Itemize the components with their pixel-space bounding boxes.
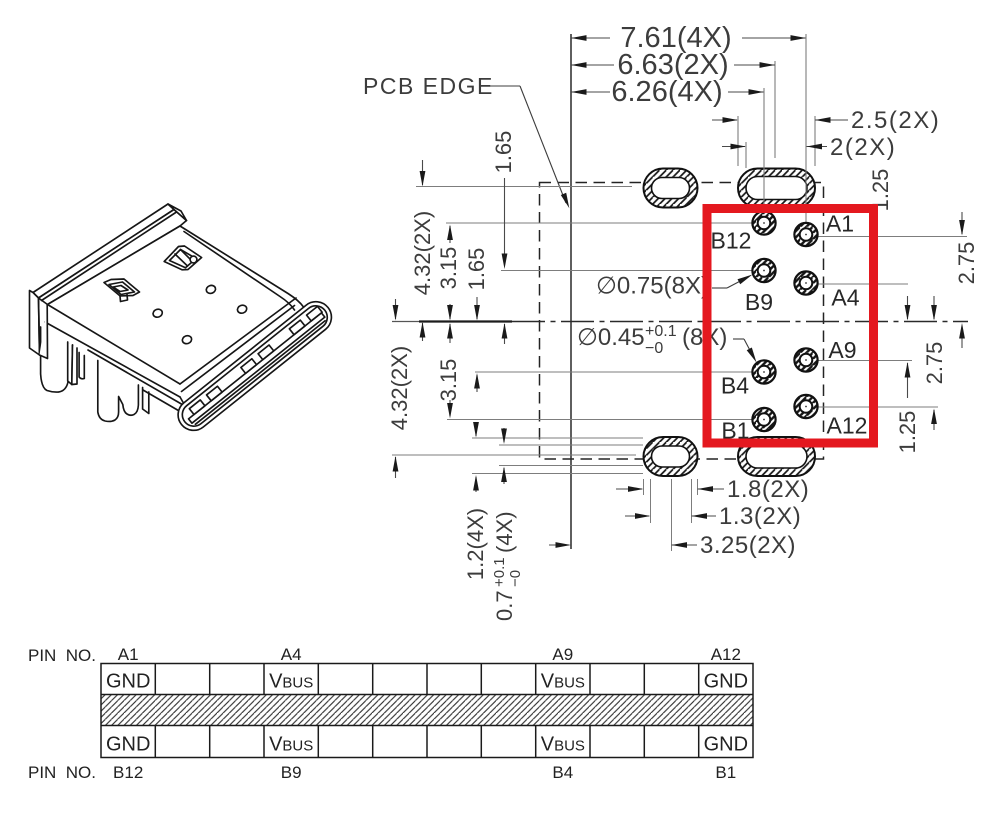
extension line B9 y=270.5 [501, 270, 752, 272]
extension line footprint top y=186.5 [416, 186, 632, 188]
svg-text:B12: B12 [711, 228, 752, 254]
svg-text:B12: B12 [113, 763, 143, 782]
dimension 1.2(4X) [475, 423, 477, 436]
leader line A9 [818, 360, 913, 362]
extension line B4 y=372 [475, 371, 752, 373]
svg-text:2.5(2X): 2.5(2X) [851, 107, 940, 134]
svg-text:A12: A12 [711, 645, 741, 664]
dimension 6.63(2X) [571, 64, 614, 66]
svg-text:1.3(2X): 1.3(2X) [719, 503, 801, 530]
extension line oval outer bottom y=473.5 [472, 473, 643, 475]
svg-text:1.65: 1.65 [464, 248, 489, 291]
dimension 1.65 upper (centerline to B4) [476, 297, 478, 319]
svg-text:3.25(2X): 3.25(2X) [700, 532, 796, 559]
svg-text:−0: −0 [645, 340, 663, 357]
leader line A4 [818, 283, 909, 285]
extension line A-column x=806 [805, 34, 807, 223]
through-hole pad B12 [752, 211, 775, 234]
svg-text:A12: A12 [827, 413, 868, 439]
svg-text:VBUS: VBUS [541, 671, 585, 693]
dimension 2.75 inner right [933, 296, 935, 319]
svg-text:6.26(4X): 6.26(4X) [611, 76, 722, 108]
left side face [48, 305, 181, 385]
dimension 4.32(2X) lower [395, 299, 397, 319]
dimension 2(2X) [722, 146, 745, 148]
svg-text:A9: A9 [552, 645, 573, 664]
svg-text:B4: B4 [552, 763, 573, 782]
svg-text:2(2X): 2(2X) [830, 134, 896, 161]
svg-text:−0: −0 [507, 570, 524, 587]
dimension 4.32(2X) upper [422, 160, 424, 185]
label diameter 0.45 +0.1/-0 (8X) with leader to pad B4 [577, 323, 727, 357]
pin table grid [101, 664, 753, 758]
mounting slot top-right large [738, 169, 815, 208]
isometric 3D view of USB-C receptacle [30, 204, 338, 437]
dimension 6.26(4X) [571, 91, 610, 93]
svg-text:PCB EDGE: PCB EDGE [363, 73, 494, 99]
shell back flange bar [33, 204, 174, 298]
top face punch hole left [104, 279, 140, 296]
svg-text:A4: A4 [281, 645, 302, 664]
svg-text:GND: GND [106, 734, 150, 756]
extension line B1 y=419.5 [447, 419, 752, 421]
mounting legs [41, 327, 70, 392]
extension lines oval outer width x=738 / x=815 [737, 116, 739, 166]
PCB footprint courtyard dashed outline [540, 183, 824, 460]
extension line oval outer top y=438 [472, 437, 643, 439]
shell front rim [180, 298, 296, 384]
svg-text:(4X): (4X) [492, 511, 517, 553]
dimension 3.15 upper [449, 226, 451, 243]
through-hole pad A1 [794, 223, 817, 246]
extension line oval inner top y=445 [499, 444, 643, 446]
extension line oval inner bottom y=465.5 [499, 465, 643, 467]
svg-text:1.65: 1.65 [491, 131, 516, 174]
svg-text:∅0.45: ∅0.45 [577, 324, 645, 351]
extension line oval-center x=775 [774, 61, 776, 158]
top face right side edge curving into mouth cap [180, 226, 304, 307]
svg-text:PIN NO.: PIN NO. [28, 646, 96, 665]
shell top face [48, 226, 297, 384]
dimension 2.5(2X) [712, 119, 737, 121]
svg-text:1.25: 1.25 [895, 411, 920, 454]
svg-text:VBUS: VBUS [269, 734, 313, 756]
svg-text:A1: A1 [826, 211, 854, 237]
svg-text:A4: A4 [831, 285, 859, 311]
svg-text:1.2(4X): 1.2(4X) [463, 508, 488, 580]
extension line B12 y=223 [446, 222, 752, 224]
svg-text:+0.1: +0.1 [645, 323, 677, 340]
svg-text:GND: GND [704, 671, 748, 693]
svg-text:VBUS: VBUS [541, 734, 585, 756]
svg-text:2.75: 2.75 [954, 242, 979, 285]
svg-text:∅0.75(8X): ∅0.75(8X) [596, 273, 709, 300]
through-hole pad B4 [752, 360, 775, 383]
svg-text:3.15: 3.15 [436, 247, 461, 290]
pin table hatched middle band [101, 695, 753, 726]
svg-text:2.75: 2.75 [922, 342, 947, 385]
svg-text:B9: B9 [281, 763, 302, 782]
extension line small oval center x=671.5 [671, 479, 673, 551]
leader line A12 [818, 406, 939, 408]
top face punch hole right [164, 246, 201, 270]
svg-text:4.32(2X): 4.32(2X) [387, 346, 412, 430]
dimension 1.65 top (B9 to centerline) [504, 178, 506, 265]
svg-text:4.32(2X): 4.32(2X) [410, 211, 435, 295]
svg-text:0.7: 0.7 [492, 590, 517, 621]
mounting slot bottom-right large [738, 437, 815, 476]
mounting slot bottom-left small [644, 437, 698, 476]
svg-text:A9: A9 [828, 337, 856, 363]
red highlight rectangle around pin area [707, 209, 874, 444]
through-hole pad B1 [752, 408, 775, 431]
svg-text:3.15: 3.15 [436, 359, 461, 402]
svg-text:B9: B9 [745, 289, 773, 315]
extension lines small oval inner x=650.5/691.5 [650, 479, 652, 523]
horizontal centerline (dash-dot) [392, 321, 419, 323]
through-hole pad A4 [794, 271, 817, 294]
dimension 1.25 inner right [907, 296, 909, 319]
through-hole pad B9 [752, 259, 775, 282]
svg-text:GND: GND [106, 671, 150, 693]
dimension 1.3(2X) [625, 515, 649, 517]
svg-text:VBUS: VBUS [269, 671, 313, 693]
extension lines small oval width x=643.5/697.5 [643, 479, 645, 495]
PCB edge vertical line [570, 34, 572, 549]
extension line oval inner width x=746 [745, 142, 747, 168]
svg-text:A1: A1 [118, 645, 139, 664]
svg-text:B1: B1 [715, 763, 736, 782]
extension line B-column x=764 [763, 88, 765, 211]
top face dimples [152, 308, 164, 319]
dimension 7.61(4X) [571, 37, 610, 39]
tongue / contact bank [189, 313, 325, 423]
shell bottom edge line [45, 322, 180, 397]
dimension 2.75 outer right [961, 212, 963, 234]
dimension 3.25(2X) [549, 544, 569, 546]
connector mouth opening [172, 295, 338, 436]
svg-text:PIN NO.: PIN NO. [28, 763, 96, 782]
through-hole pad A9 [794, 348, 817, 371]
dimension 0.7 +0.1/-0 (4X) [503, 428, 505, 442]
leader line A1 [818, 236, 968, 238]
svg-text:B4: B4 [721, 373, 749, 399]
svg-text:+0.1: +0.1 [491, 557, 508, 587]
left shell flange [30, 291, 40, 356]
through-hole pad A12 [794, 395, 817, 418]
svg-text:1.8(2X): 1.8(2X) [727, 476, 809, 503]
mounting slot top-left small [644, 169, 698, 208]
dimension 1.8(2X) [616, 488, 642, 490]
extension line y=455 long [392, 454, 636, 456]
svg-text:GND: GND [704, 734, 748, 756]
